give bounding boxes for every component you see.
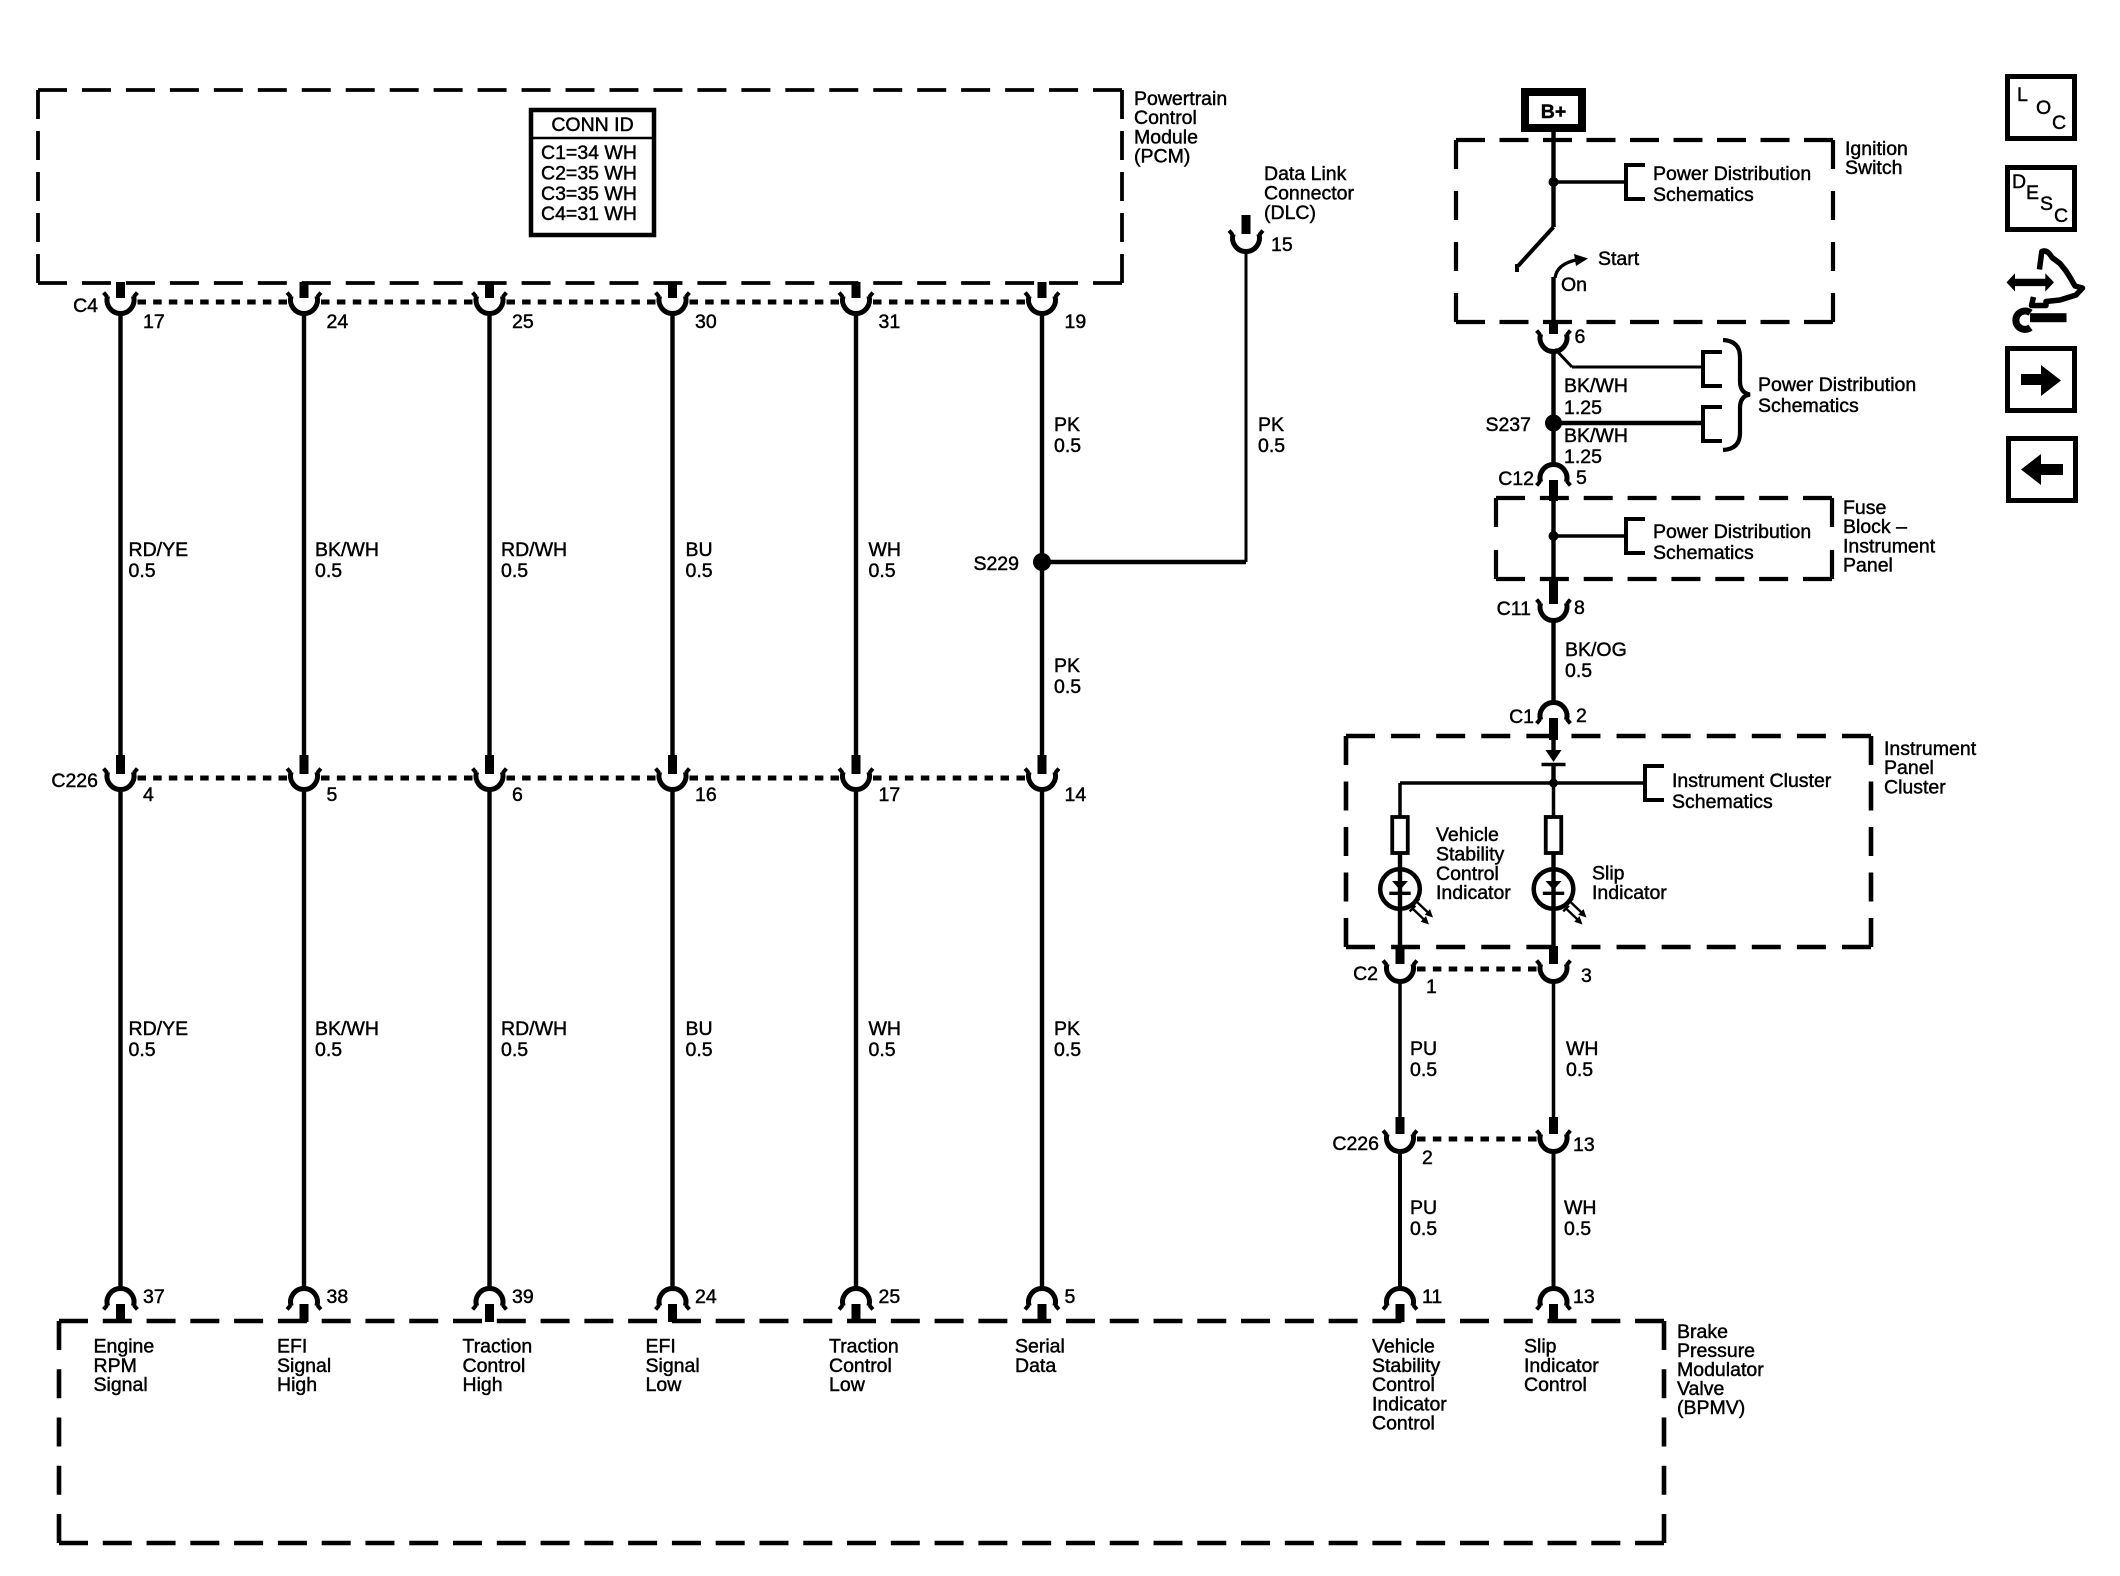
- svg-text:1.25: 1.25: [1564, 397, 1602, 419]
- svg-text:D: D: [2012, 171, 2026, 193]
- svg-text:0.5: 0.5: [869, 1039, 896, 1061]
- svg-text:WH: WH: [1566, 1038, 1599, 1060]
- svg-text:C226: C226: [1332, 1133, 1379, 1155]
- svg-text:C2=35 WH: C2=35 WH: [541, 162, 637, 184]
- svg-text:C: C: [2054, 205, 2068, 227]
- svg-text:25: 25: [879, 1286, 901, 1308]
- svg-text:8: 8: [1574, 597, 1585, 619]
- svg-text:0.5: 0.5: [129, 1039, 156, 1061]
- svg-text:BU: BU: [686, 1018, 713, 1040]
- svg-text:15: 15: [1271, 234, 1293, 256]
- svg-text:C11: C11: [1497, 598, 1531, 620]
- svg-text:BK/WH: BK/WH: [1564, 375, 1628, 397]
- svg-text:S: S: [2040, 193, 2053, 215]
- svg-text:RD/YE: RD/YE: [129, 539, 189, 561]
- svg-text:0.5: 0.5: [1258, 435, 1285, 457]
- svg-text:BK/OG: BK/OG: [1565, 639, 1627, 661]
- svg-text:High: High: [277, 1374, 317, 1396]
- svg-text:PU: PU: [1410, 1197, 1437, 1219]
- svg-text:0.5: 0.5: [869, 560, 896, 582]
- svg-text:RD/YE: RD/YE: [129, 1018, 189, 1040]
- svg-text:0.5: 0.5: [129, 560, 156, 582]
- svg-text:Control: Control: [1524, 1374, 1587, 1396]
- svg-text:30: 30: [695, 311, 717, 333]
- svg-text:B+: B+: [1541, 101, 1566, 123]
- svg-text:Schematics: Schematics: [1672, 791, 1773, 813]
- svg-text:C2: C2: [1353, 963, 1378, 985]
- svg-text:6: 6: [1575, 326, 1586, 348]
- svg-text:0.5: 0.5: [1054, 1039, 1081, 1061]
- svg-text:5: 5: [1065, 1286, 1076, 1308]
- svg-text:5: 5: [1576, 467, 1587, 489]
- svg-text:Instrument Cluster: Instrument Cluster: [1672, 770, 1832, 792]
- svg-text:PK: PK: [1054, 1018, 1080, 1040]
- svg-text:Switch: Switch: [1845, 157, 1902, 179]
- svg-text:C4=31 WH: C4=31 WH: [541, 203, 637, 225]
- svg-text:C4: C4: [73, 295, 98, 317]
- svg-text:C226: C226: [51, 770, 98, 792]
- svg-text:Schematics: Schematics: [1653, 542, 1754, 564]
- svg-text:Power Distribution: Power Distribution: [1653, 163, 1811, 185]
- svg-text:BK/WH: BK/WH: [315, 1018, 379, 1040]
- svg-text:RD/WH: RD/WH: [501, 1018, 567, 1040]
- svg-text:Cluster: Cluster: [1884, 776, 1946, 798]
- svg-text:0.5: 0.5: [1410, 1218, 1437, 1240]
- svg-text:0.5: 0.5: [686, 560, 713, 582]
- svg-text:C1: C1: [1509, 706, 1534, 728]
- svg-text:RD/WH: RD/WH: [501, 539, 567, 561]
- svg-text:0.5: 0.5: [1410, 1059, 1437, 1081]
- svg-text:11: 11: [1422, 1286, 1442, 1308]
- svg-text:S229: S229: [973, 553, 1019, 575]
- svg-text:PK: PK: [1054, 414, 1080, 436]
- svg-text:4: 4: [143, 784, 154, 806]
- svg-text:C12: C12: [1498, 468, 1534, 490]
- svg-text:0.5: 0.5: [1566, 1059, 1593, 1081]
- svg-text:16: 16: [695, 784, 717, 806]
- svg-text:C: C: [2052, 112, 2066, 134]
- svg-text:Signal: Signal: [94, 1374, 148, 1396]
- svg-text:Power Distribution: Power Distribution: [1758, 374, 1916, 396]
- svg-text:(BPMV): (BPMV): [1677, 1397, 1745, 1419]
- svg-text:0.5: 0.5: [1564, 1218, 1591, 1240]
- svg-text:WH: WH: [869, 1018, 902, 1040]
- svg-text:On: On: [1561, 274, 1587, 296]
- svg-text:1: 1: [1426, 976, 1437, 998]
- svg-text:L: L: [2017, 84, 2028, 106]
- svg-text:Power Distribution: Power Distribution: [1653, 521, 1811, 543]
- svg-text:(DLC): (DLC): [1264, 202, 1316, 224]
- svg-text:WH: WH: [1564, 1197, 1597, 1219]
- svg-text:0.5: 0.5: [1565, 660, 1592, 682]
- svg-text:14: 14: [1065, 784, 1087, 806]
- svg-text:O: O: [2036, 97, 2051, 119]
- svg-text:31: 31: [879, 311, 901, 333]
- svg-text:PK: PK: [1054, 655, 1080, 677]
- svg-text:C3=35 WH: C3=35 WH: [541, 183, 637, 205]
- svg-text:WH: WH: [869, 539, 902, 561]
- svg-text:0.5: 0.5: [501, 560, 528, 582]
- svg-text:Indicator: Indicator: [1592, 882, 1667, 904]
- svg-text:0.5: 0.5: [686, 1039, 713, 1061]
- svg-text:1.25: 1.25: [1564, 446, 1602, 468]
- svg-text:Schematics: Schematics: [1653, 184, 1754, 206]
- svg-text:19: 19: [1065, 311, 1087, 333]
- svg-text:E: E: [2026, 182, 2039, 204]
- svg-text:0.5: 0.5: [315, 560, 342, 582]
- svg-text:Low: Low: [646, 1374, 683, 1396]
- svg-text:2: 2: [1576, 705, 1587, 727]
- svg-text:CONN ID: CONN ID: [551, 114, 633, 136]
- svg-text:13: 13: [1573, 1134, 1595, 1156]
- svg-text:Data: Data: [1015, 1355, 1056, 1377]
- svg-text:Control: Control: [1372, 1413, 1435, 1435]
- svg-text:High: High: [463, 1374, 503, 1396]
- svg-text:(PCM): (PCM): [1134, 146, 1190, 168]
- svg-text:PU: PU: [1410, 1038, 1437, 1060]
- svg-text:5: 5: [327, 784, 338, 806]
- svg-text:BK/WH: BK/WH: [315, 539, 379, 561]
- svg-text:13: 13: [1573, 1286, 1595, 1308]
- svg-text:38: 38: [327, 1286, 349, 1308]
- svg-text:C1=34 WH: C1=34 WH: [541, 142, 637, 164]
- svg-text:S237: S237: [1485, 414, 1531, 436]
- svg-text:17: 17: [143, 311, 165, 333]
- svg-text:24: 24: [695, 1286, 717, 1308]
- svg-text:0.5: 0.5: [1054, 435, 1081, 457]
- svg-text:Panel: Panel: [1843, 555, 1893, 577]
- svg-text:Start: Start: [1598, 248, 1640, 270]
- svg-text:25: 25: [512, 311, 534, 333]
- svg-text:39: 39: [512, 1286, 534, 1308]
- svg-text:0.5: 0.5: [501, 1039, 528, 1061]
- svg-text:3: 3: [1581, 965, 1592, 987]
- svg-text:Indicator: Indicator: [1436, 882, 1511, 904]
- svg-text:BK/WH: BK/WH: [1564, 425, 1628, 447]
- svg-text:BU: BU: [686, 539, 713, 561]
- svg-text:Low: Low: [829, 1374, 866, 1396]
- svg-text:37: 37: [143, 1286, 165, 1308]
- svg-text:6: 6: [512, 784, 523, 806]
- svg-text:17: 17: [879, 784, 901, 806]
- svg-text:PK: PK: [1258, 414, 1284, 436]
- svg-text:0.5: 0.5: [1054, 676, 1081, 698]
- svg-text:2: 2: [1422, 1147, 1433, 1169]
- svg-text:24: 24: [327, 311, 349, 333]
- svg-text:Schematics: Schematics: [1758, 395, 1859, 417]
- svg-text:0.5: 0.5: [315, 1039, 342, 1061]
